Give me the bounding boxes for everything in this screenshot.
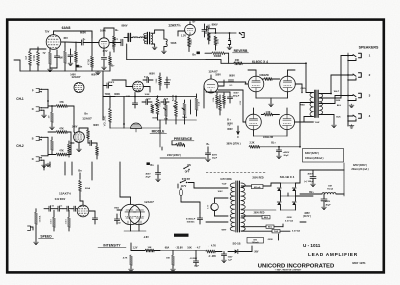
- wire: [50, 64, 57, 68]
- svg-text:100Ω: 100Ω: [217, 38, 219, 44]
- wire: [143, 87, 150, 93]
- capacitor 100PF: [103, 82, 115, 88]
- wire: [117, 209, 122, 211]
- switch ON/OFF: [183, 165, 191, 174]
- transformer OT primary: [310, 93, 313, 117]
- capacitor Ck: [54, 50, 59, 64]
- resistor cath V2a: [109, 44, 115, 71]
- svg-text:220Ω: 220Ω: [191, 39, 193, 45]
- tube V13 12AU7: [120, 204, 149, 224]
- wire: [206, 91, 230, 93]
- potentiometer 500KB: [212, 52, 229, 59]
- wire WHT: [319, 75, 348, 94]
- capacitor 20uF b: [276, 147, 289, 159]
- svg-text:800V: 800V: [229, 75, 235, 78]
- svg-text:16K: 16K: [166, 258, 170, 260]
- svg-text:- 4.7: - 4.7: [196, 246, 201, 249]
- resistor Rk: [49, 49, 52, 68]
- wire: [44, 162, 92, 180]
- capacitor 0.02: [116, 222, 121, 224]
- label copyright: [275, 269, 302, 272]
- label 380V: [226, 143, 240, 146]
- capacitor 0.1: [202, 24, 211, 37]
- label 800V: [121, 24, 127, 28]
- svg-text:6.3V 4A: 6.3V 4A: [292, 229, 300, 232]
- capacitor: [164, 77, 169, 88]
- wire: [130, 36, 132, 38]
- potentiometer bass: [175, 96, 178, 120]
- tube V4 6L6GC: [248, 76, 264, 92]
- svg-text:15H: 15H: [328, 185, 332, 187]
- capacitor 20uF: [205, 147, 217, 162]
- svg-text:40μF: 40μF: [325, 203, 331, 206]
- resistor: [50, 210, 55, 231]
- resistor 760K: [156, 73, 162, 90]
- capacitor 100uF: [304, 170, 316, 187]
- svg-text:0.001: 0.001: [165, 79, 171, 81]
- label 117V ORG: [220, 178, 232, 181]
- label 10Kohm 2W: [263, 136, 274, 139]
- wire: [248, 246, 252, 252]
- label 240V: [167, 154, 181, 157]
- svg-text:400mA: 400mA: [254, 186, 261, 189]
- label INTENSITY: [98, 243, 126, 247]
- wire: [211, 75, 224, 86]
- wire: [20, 70, 110, 72]
- wire: [343, 163, 345, 196]
- tube V10 12AX7: [133, 81, 144, 92]
- wire: [104, 28, 114, 38]
- svg-text:200V RED: 200V RED: [254, 212, 265, 214]
- svg-text:ORG: ORG: [301, 88, 306, 90]
- ground: [332, 124, 337, 128]
- speaker jack 4: [347, 114, 371, 122]
- svg-text:1.5K: 1.5K: [265, 111, 270, 114]
- label -26V: [254, 251, 259, 253]
- label 800V: [212, 23, 218, 27]
- wire: [281, 182, 296, 184]
- capacitor 1uF: [221, 252, 233, 263]
- label SO-1B: [233, 241, 241, 245]
- svg-text:117V: 117V: [181, 185, 187, 188]
- label 630V: [305, 152, 319, 155]
- wire plate top: [295, 84, 302, 93]
- capacitor: [63, 206, 72, 211]
- wire: [260, 146, 301, 148]
- wire: [74, 106, 75, 133]
- label U-1011: [303, 243, 321, 248]
- svg-text:1M: 1M: [59, 58, 62, 60]
- svg-text:BLU: BLU: [337, 105, 342, 107]
- capacitor: [132, 93, 137, 109]
- svg-text:12AX7½: 12AX7½: [59, 192, 71, 196]
- svg-text:← 4.7K: ← 4.7K: [208, 244, 216, 247]
- svg-text:7V: 7V: [43, 52, 46, 55]
- capacitor 0.02: [142, 99, 152, 105]
- svg-text:BLK: BLK: [336, 117, 341, 119]
- ground: [152, 46, 157, 50]
- label 325V: [353, 164, 367, 167]
- half tube V11: [123, 123, 141, 132]
- capacitor: [88, 140, 97, 145]
- wire: [178, 31, 185, 36]
- label B2+: [309, 191, 314, 194]
- svg-text:20μF: 20μF: [212, 158, 218, 160]
- wire: [281, 183, 296, 210]
- svg-text:CH-1: CH-1: [16, 97, 24, 101]
- resistor 100K: [214, 36, 219, 50]
- svg-text:630V (625V ): 630V (625V ): [305, 152, 319, 155]
- resistor: [207, 32, 210, 44]
- jack in B: [32, 136, 42, 140]
- svg-text:760K: 760K: [156, 78, 158, 83]
- svg-text:20mA (22 (mA ): 20mA (22 (mA ): [351, 168, 368, 171]
- wire BLK: [319, 115, 341, 125]
- svg-text:4.7V: 4.7V: [103, 50, 108, 53]
- label 12AU7: [208, 69, 218, 73]
- label 500A: [152, 116, 158, 119]
- label 200V RED: [254, 212, 265, 214]
- svg-text:Bn: Bn: [192, 54, 196, 57]
- svg-text:-26V: -26V: [254, 251, 259, 253]
- label 140V: [70, 73, 76, 76]
- svg-text:1MΩ: 1MΩ: [114, 207, 119, 209]
- svg-text:REVERB: REVERB: [234, 49, 248, 53]
- resistor 1M in2: [51, 137, 54, 155]
- label STD BY: [180, 179, 194, 183]
- svg-text:470K: 470K: [86, 59, 90, 65]
- svg-text:35μF: 35μF: [194, 266, 200, 268]
- label 600V: [80, 31, 86, 35]
- wire: [215, 198, 229, 203]
- svg-text:300K: 300K: [114, 93, 120, 96]
- wire: [274, 224, 290, 231]
- resistor: [96, 143, 99, 159]
- label 12AX7 1/2: [59, 192, 71, 196]
- power rating box: [303, 149, 344, 163]
- svg-text:6.3V 2A: 6.3V 2A: [285, 219, 293, 222]
- capacitor 20uF 450V: [145, 165, 160, 182]
- capacitor: [44, 205, 55, 211]
- ground: [96, 71, 101, 75]
- resistor: [68, 141, 71, 157]
- box 50V 100mA: [247, 238, 264, 244]
- node Bn: [192, 52, 200, 57]
- resistor 220A: [79, 180, 91, 196]
- arrow C: [237, 126, 239, 139]
- wire bias bus: [160, 250, 206, 252]
- svg-text:-C -28V: -C -28V: [208, 256, 216, 258]
- svg-text:BASS: BASS: [172, 94, 175, 101]
- label 100ohm 2W: [259, 74, 269, 77]
- svg-text:278V: 278V: [112, 44, 114, 50]
- tube V5 6L6GC: [280, 76, 296, 92]
- svg-text:20K: 20K: [235, 59, 240, 62]
- wire: [254, 130, 288, 136]
- tube V12 12AX7: [77, 205, 89, 217]
- wire: [155, 30, 164, 39]
- svg-text:SPEAKERS: SPEAKERS: [359, 46, 379, 50]
- capacitor: [114, 214, 119, 224]
- pilot lamp: [208, 203, 219, 211]
- wire: [131, 243, 160, 251]
- svg-text:335V: 335V: [304, 213, 310, 215]
- label RED: [300, 105, 305, 107]
- wire BLU tap: [319, 96, 348, 108]
- svg-text:600V: 600V: [80, 31, 86, 35]
- wire: [205, 29, 236, 34]
- label 12AX7: [82, 116, 92, 120]
- label 300K: [114, 93, 120, 96]
- svg-text:- 23.8V: - 23.8V: [175, 246, 183, 249]
- label 12AX7 1/2: [168, 23, 181, 27]
- svg-text:GRN: GRN: [268, 239, 273, 241]
- svg-text:B+: B+: [115, 28, 119, 32]
- label 600V: [91, 73, 97, 76]
- label 160mA: [305, 157, 324, 160]
- capacitor: [92, 218, 97, 224]
- svg-text:160V: 160V: [100, 29, 106, 33]
- label 1.5K: [126, 96, 131, 98]
- wire: [160, 128, 162, 150]
- label 6L6GC X 4: [252, 60, 268, 64]
- svg-text:WH-T: WH-T: [334, 91, 340, 93]
- svg-text:100K: 100K: [145, 94, 150, 96]
- wire: [70, 132, 72, 155]
- label 10K: [187, 246, 192, 249]
- capacitor 0.1: [207, 25, 216, 31]
- label -C-28V: [208, 256, 216, 258]
- resistor 20K: [234, 59, 242, 65]
- bass pot label: [172, 94, 175, 101]
- potentiometer treble: [156, 96, 161, 120]
- label 12AU7: [144, 200, 154, 204]
- potentiometer volume: [109, 104, 112, 128]
- label 1.3V: [181, 34, 186, 37]
- svg-text:BLU: BLU: [268, 227, 273, 229]
- transformer PT primary: [230, 183, 234, 231]
- svg-text:Bn: Bn: [150, 164, 154, 167]
- wire: [120, 197, 131, 204]
- svg-text:WHT: WHT: [222, 229, 228, 231]
- label 12AX7: [71, 75, 81, 79]
- diode D1: [277, 188, 281, 191]
- svg-text:BL+: BL+: [271, 142, 276, 145]
- wire: [254, 92, 288, 115]
- label 700K: [105, 93, 111, 96]
- label 7V: [43, 52, 46, 55]
- box YLW: [272, 230, 280, 234]
- wire: [124, 225, 146, 231]
- svg-text:SO-1B X 4: SO-1B X 4: [280, 175, 295, 179]
- ground: [48, 68, 53, 72]
- svg-text:180V: 180V: [215, 74, 221, 77]
- svg-text:47K: 47K: [59, 127, 64, 130]
- label B+: [206, 143, 210, 146]
- svg-text:501B: 501B: [171, 42, 177, 45]
- potentiometer 500KA: [35, 209, 42, 228]
- volume pot label: [104, 115, 107, 126]
- wire: [204, 82, 246, 122]
- svg-text:450V: 450V: [307, 172, 313, 175]
- label ORG: [301, 88, 306, 90]
- wire: [119, 162, 121, 197]
- svg-text:100V: 100V: [228, 256, 233, 258]
- diode D2: [292, 188, 296, 191]
- dashed enclosure: [206, 172, 266, 174]
- svg-text:CH-2: CH-2: [16, 144, 24, 148]
- svg-text:Bn: Bn: [84, 113, 88, 116]
- resistor 100A: [219, 95, 222, 115]
- label CH-1: [16, 97, 24, 101]
- speaker jack 1: [347, 53, 371, 61]
- svg-text:GRN: GRN: [287, 217, 292, 219]
- svg-text:OFF: OFF: [185, 172, 190, 174]
- jack reverb return: [228, 33, 230, 46]
- svg-text:12AX7: 12AX7: [82, 116, 92, 120]
- resistor 4.7K: [123, 255, 134, 272]
- wire B+ out: [296, 170, 345, 196]
- resistor 470K: [32, 51, 39, 65]
- wire: [127, 44, 206, 60]
- wire: [41, 89, 49, 108]
- wire: [206, 60, 234, 64]
- resistor 10K: [145, 247, 154, 252]
- resistor screen top: [262, 78, 280, 81]
- svg-text:600V: 600V: [93, 124, 99, 127]
- label 0.1 800V: [227, 119, 233, 126]
- wire: [278, 234, 280, 240]
- svg-text:6AN8: 6AN8: [62, 26, 71, 30]
- label GRN: [268, 239, 273, 241]
- diode bias: [235, 249, 238, 253]
- wire: [205, 53, 229, 63]
- ground: [46, 163, 51, 167]
- wire: [35, 228, 37, 241]
- resistor: [212, 93, 219, 108]
- label 250V RED: [252, 177, 264, 180]
- wire: [103, 96, 177, 128]
- wire: [102, 71, 104, 97]
- svg-text:1.3V: 1.3V: [181, 34, 186, 37]
- resistor 2.2K: [249, 142, 260, 149]
- speaker jack 3: [347, 93, 371, 101]
- label 160V: [100, 29, 106, 33]
- label 117V: [181, 185, 187, 188]
- transformer OT core: [314, 90, 318, 118]
- label CH-2: [16, 144, 24, 148]
- svg-text:117V ORG: 117V ORG: [220, 178, 232, 181]
- resistor plate V2a: [113, 36, 116, 52]
- svg-text:MAY 1971: MAY 1971: [352, 261, 366, 265]
- svg-text:1.5A: 1.5A: [197, 101, 200, 106]
- resistor: [183, 100, 186, 120]
- label Bn: [84, 113, 88, 116]
- wire: [89, 211, 95, 218]
- transformer PT secondary: [241, 183, 245, 231]
- potentiometer mid: [165, 102, 168, 120]
- svg-text:0.0047μF: 0.0047μF: [186, 217, 196, 220]
- wire: [41, 137, 48, 156]
- wire YLW: [304, 117, 313, 123]
- svg-text:LEAD AMPLIFIER: LEAD AMPLIFIER: [308, 252, 358, 258]
- label 3n: [59, 58, 62, 60]
- resistor 1M in: [48, 105, 54, 130]
- wire tap1: [319, 56, 348, 103]
- potentiometer wipers: [151, 100, 191, 114]
- svg-text:N: N: [32, 108, 34, 111]
- label SPEAKERS: [359, 46, 379, 50]
- label 180V: [215, 74, 221, 77]
- label B+: [115, 28, 119, 32]
- svg-text:VOLUME: VOLUME: [104, 115, 107, 126]
- label 100K: [145, 94, 150, 96]
- label 1M: [114, 207, 119, 209]
- capacitor: [72, 206, 77, 211]
- inductor choke 15H: [322, 185, 336, 194]
- label REVERB: [233, 49, 249, 53]
- wire: [61, 42, 81, 46]
- svg-text:PRESENCE: PRESENCE: [174, 137, 193, 141]
- svg-text:B +: B +: [227, 119, 231, 122]
- tube V8 12AX7: [74, 132, 85, 143]
- svg-text:600V: 600V: [149, 72, 155, 75]
- svg-text:140V: 140V: [72, 125, 78, 128]
- label -23.8V: [175, 246, 183, 249]
- capacitor 0.1: [110, 38, 123, 46]
- wire: [103, 96, 115, 98]
- svg-text:2.2K: 2.2K: [249, 142, 254, 145]
- wire: [77, 142, 82, 151]
- ground: [227, 46, 232, 50]
- resistor 47K c: [48, 150, 71, 156]
- capacitor: [143, 77, 153, 82]
- svg-text:YLW: YLW: [274, 231, 278, 233]
- svg-text:0.02 600V: 0.02 600V: [55, 199, 66, 201]
- svg-text:+450V: +450V: [283, 151, 290, 154]
- diode D4: [292, 202, 296, 205]
- transformer PT core: [236, 181, 240, 232]
- label 45V: [63, 36, 68, 40]
- resistor 47K a: [48, 101, 74, 108]
- label 6AN8: [62, 26, 71, 30]
- svg-text:140V: 140V: [70, 73, 76, 76]
- svg-text:MIDDLE: MIDDLE: [152, 129, 165, 133]
- tube V9 12AX7: [74, 83, 84, 93]
- wire: [103, 97, 197, 125]
- label 1.2V: [136, 90, 141, 93]
- svg-text:100Ω2W: 100Ω2W: [259, 74, 269, 77]
- inductor reverb coil 501B: [162, 39, 177, 54]
- label YLW: [222, 184, 228, 186]
- wire: [54, 31, 93, 38]
- capacitor 35uF: [189, 258, 198, 260]
- svg-text:4.7K: 4.7K: [123, 256, 128, 259]
- tube V3 12AU7: [204, 79, 218, 93]
- svg-text:12AX7½: 12AX7½: [168, 23, 181, 27]
- label 5KB: [182, 117, 187, 119]
- label B+: [111, 64, 115, 68]
- label BL+: [271, 142, 276, 145]
- wire: [281, 193, 296, 196]
- wire: [300, 193, 344, 195]
- svg-text:6.3V: 6.3V: [208, 204, 210, 209]
- label 75V: [45, 29, 50, 33]
- svg-text:100mA: 100mA: [252, 241, 259, 244]
- svg-text:N: N: [32, 158, 34, 161]
- wire: [245, 84, 299, 122]
- svg-text:400V: 400V: [212, 153, 218, 156]
